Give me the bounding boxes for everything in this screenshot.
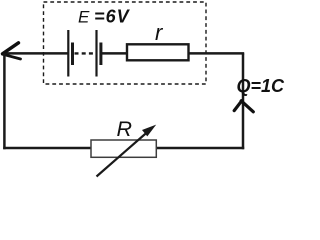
current arrow right side pointing up, right stroke xyxy=(241,101,253,112)
rheostat diagonal arrow shaft xyxy=(97,132,149,177)
battery cell 1 short plate xyxy=(71,43,74,66)
rheostat R body xyxy=(91,140,156,157)
svg-text:Q=1C: Q=1C xyxy=(237,76,286,96)
current arrow top-left pointing left, lower stroke xyxy=(3,54,21,59)
svg-text:r: r xyxy=(155,20,164,45)
battery inter-cell dashed link xyxy=(75,52,96,54)
wire: left vertical segment xyxy=(3,53,6,149)
svg-text:R: R xyxy=(117,117,133,141)
wire: resistor r to right corner xyxy=(189,52,245,55)
battery cell 2 long plate xyxy=(95,30,97,77)
wire: right vertical segment xyxy=(242,53,245,149)
wire: bottom horizontal segment xyxy=(3,147,244,150)
wire: top-left horizontal segment xyxy=(3,52,68,55)
wire: battery to resistor r xyxy=(102,52,127,55)
current arrow right side pointing up, left stroke xyxy=(234,101,242,111)
current arrow top-left pointing left, upper stroke xyxy=(3,43,19,54)
resistor r body xyxy=(127,44,189,60)
battery cell 1 long plate xyxy=(67,30,69,77)
dashed enclosure box (battery + internal resistance) xyxy=(44,2,207,84)
svg-text:E =6V: E =6V xyxy=(78,7,131,27)
battery cell 2 short plate xyxy=(99,43,102,66)
rheostat arrowhead xyxy=(142,125,156,137)
